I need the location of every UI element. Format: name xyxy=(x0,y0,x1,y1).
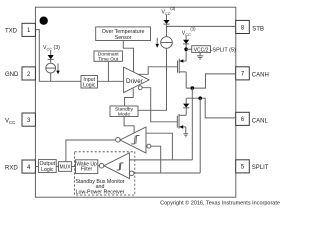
Wake Up Filter block xyxy=(76,160,98,174)
wire I1 to TXD net xyxy=(50,73,52,81)
svg-text:Logic: Logic xyxy=(83,83,96,89)
svg-text:Sensor: Sensor xyxy=(115,35,132,41)
low-power receiver enable bubble xyxy=(129,171,134,176)
wire D1 to current source I1 xyxy=(50,59,52,63)
svg-text:VCC (3): VCC (3) xyxy=(43,45,60,51)
low-power receiver output bubble xyxy=(99,163,104,168)
wire Output Logic to MUX xyxy=(56,165,58,167)
comparator U3 low-power receiver xyxy=(104,153,129,179)
svg-text:-SPLIT (5): -SPLIT (5) xyxy=(211,47,236,53)
pin-1 indicator dot xyxy=(40,17,48,25)
Standby Mode block xyxy=(110,106,138,117)
pin 7 box (CANH) xyxy=(236,67,250,80)
transistor Q2 low-side xyxy=(177,114,186,129)
wire D2 to current source I2 / STB node xyxy=(166,24,168,36)
wire RXD pin to Output Logic xyxy=(35,165,38,167)
current arrow for I2 xyxy=(155,38,159,48)
wire VCC to diode D1 xyxy=(50,50,52,55)
svg-text:SPLIT: SPLIT xyxy=(252,165,269,171)
VCC/2 block xyxy=(192,46,211,54)
svg-text:Time Out: Time Out xyxy=(98,56,119,62)
op-amp U1 driver triangle xyxy=(124,67,150,93)
current source I2 (bias) xyxy=(161,37,173,49)
svg-text:Filter: Filter xyxy=(81,167,92,173)
comparator U2 main receiver xyxy=(120,127,146,153)
wire Standby Mode to bias rail xyxy=(138,48,167,110)
wire OT sensor to driver xyxy=(123,41,133,72)
Over Temperature Sensor block xyxy=(96,27,151,41)
wire main receiver output to MUX xyxy=(66,140,115,162)
diode D4 (low side) xyxy=(183,104,189,108)
driver enable bubble xyxy=(138,86,142,90)
pin 2 box (GND) xyxy=(22,67,35,80)
CANH rail xyxy=(186,74,236,88)
wire TXD pin1 to node xyxy=(35,30,81,82)
wire D4 to Q2 drain xyxy=(185,108,187,116)
wire Standby Mode to main receiver xyxy=(124,117,134,133)
svg-text:(3): (3) xyxy=(190,27,196,32)
Dominant Time Out block xyxy=(94,51,122,62)
wire CANL tap down xyxy=(199,98,201,173)
wire D3 to node xyxy=(185,44,187,61)
wire main receiver input from taps xyxy=(146,133,172,160)
standby monitor caption xyxy=(75,179,124,195)
wire CANH tap down xyxy=(191,88,193,160)
wire driver bubble to Standby Mode xyxy=(125,88,134,106)
wire VCC to diode D3 xyxy=(185,35,187,39)
wire wake up filter to LP receiver xyxy=(98,165,100,167)
receiver input bus H1 xyxy=(130,159,193,161)
main receiver output bubble xyxy=(116,138,121,143)
junction CANH tap xyxy=(191,86,195,90)
wire VCC to diode D2 xyxy=(166,14,168,20)
svg-text:Low-Power Receiver: Low-Power Receiver xyxy=(76,189,125,195)
MUX block xyxy=(59,162,72,172)
pin 1 box (TXD) xyxy=(22,23,35,36)
svg-text:VCC: VCC xyxy=(5,119,15,126)
svg-text:TXD: TXD xyxy=(5,29,18,35)
wire CANL rail to diode D4 xyxy=(185,98,187,103)
diode D2 (bias) xyxy=(163,20,169,24)
current source I1 (TXD pullup) xyxy=(46,63,56,73)
svg-text:Copyright © 2016, Texas Instru: Copyright © 2016, Texas Instruments Inco… xyxy=(160,199,280,206)
junction CANL tap xyxy=(198,96,202,100)
transistor Q1 high-side xyxy=(178,59,187,74)
wire Q1 source down to CANH rail xyxy=(185,72,187,88)
svg-text:(3): (3) xyxy=(170,6,176,11)
svg-text:Driver: Driver xyxy=(126,78,143,85)
CANL rail xyxy=(186,98,236,118)
dashed standby receiver box xyxy=(75,152,135,195)
wire wake up filter to MUX xyxy=(72,166,76,168)
diode D1 (TXD pullup) xyxy=(48,55,54,59)
ground below VCC/2 xyxy=(197,52,203,59)
wire main receiver enable xyxy=(151,146,161,173)
pin 8 box (STB) xyxy=(236,20,250,33)
svg-text:STB: STB xyxy=(252,26,264,32)
main IC body outline xyxy=(35,7,235,197)
svg-text:RXD: RXD xyxy=(5,165,18,171)
Output Logic block xyxy=(38,160,56,173)
low-power receiver bus H2 xyxy=(134,172,200,174)
main receiver enable bubble xyxy=(147,144,151,148)
svg-text:GND: GND xyxy=(5,72,19,78)
ground below Q2 xyxy=(183,134,188,137)
wire Q2 source to ground xyxy=(185,127,187,134)
svg-text:Logic: Logic xyxy=(41,167,54,173)
pin 3 box (VCC) xyxy=(22,113,35,126)
pin 4 box (RXD) xyxy=(22,160,35,173)
wire node to VCC/2 box xyxy=(186,48,192,50)
Input Logic block xyxy=(81,76,98,89)
wire driver to high-side gate xyxy=(138,67,178,75)
svg-text:CANH: CANH xyxy=(252,73,269,79)
svg-text:CANL: CANL xyxy=(252,118,269,124)
wire STB pin to bias node xyxy=(167,25,236,27)
pin 6 box (CANL) xyxy=(236,112,250,125)
svg-text:VCC/2: VCC/2 xyxy=(194,47,209,53)
pin 5 box (SPLIT) xyxy=(236,160,250,173)
current arrow for I1 xyxy=(56,64,60,75)
wire Input Logic to Driver xyxy=(98,80,124,82)
diode D3 (VCC/2) xyxy=(183,40,189,44)
node junction VCC/2 xyxy=(184,47,188,51)
wire Dominant Time Out tap xyxy=(107,62,109,82)
svg-text:MUX: MUX xyxy=(59,165,71,171)
wire driver bubble to low-side gate xyxy=(142,88,177,122)
